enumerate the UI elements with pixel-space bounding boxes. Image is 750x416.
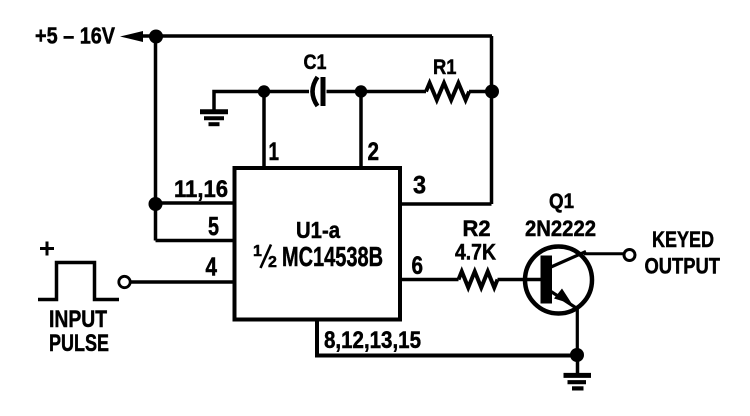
svg-text:1: 1	[253, 243, 262, 260]
svg-text:5: 5	[208, 211, 219, 241]
svg-text:OUTPUT: OUTPUT	[645, 254, 721, 279]
svg-text:+5 – 16V: +5 – 16V	[35, 23, 116, 49]
svg-text:2N2222: 2N2222	[525, 216, 596, 241]
svg-text:11,16: 11,16	[174, 176, 228, 203]
svg-text:Q1: Q1	[549, 189, 574, 213]
svg-text:4: 4	[206, 252, 218, 282]
svg-text:U1-a: U1-a	[296, 217, 340, 243]
svg-text:MC14538B: MC14538B	[282, 241, 383, 272]
svg-text:8,12,13,15: 8,12,13,15	[324, 327, 421, 354]
svg-text:R2: R2	[463, 216, 491, 241]
svg-text:6: 6	[412, 252, 424, 280]
svg-text:R1: R1	[433, 56, 457, 79]
svg-text:3: 3	[413, 172, 426, 200]
svg-text:1: 1	[269, 138, 280, 166]
svg-text:2: 2	[268, 254, 277, 271]
svg-text:4.7K: 4.7K	[455, 240, 496, 265]
svg-text:2: 2	[368, 138, 380, 166]
svg-text:C1: C1	[304, 51, 327, 74]
svg-text:INPUT: INPUT	[49, 306, 107, 333]
svg-text:KEYED: KEYED	[652, 227, 714, 252]
svg-text:PULSE: PULSE	[49, 330, 109, 357]
